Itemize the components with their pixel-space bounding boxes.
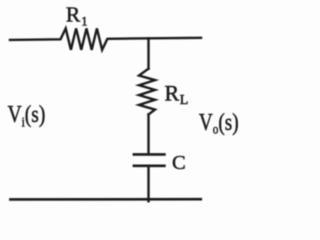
svg-text:L: L xyxy=(180,93,189,108)
svg-text:R: R xyxy=(66,3,81,27)
svg-text:Vi(s): Vi(s) xyxy=(8,101,46,130)
svg-text:1: 1 xyxy=(81,15,87,29)
svg-text:C: C xyxy=(172,152,186,174)
svg-text:Vo(s): Vo(s) xyxy=(199,109,239,137)
svg-text:R: R xyxy=(165,81,180,106)
